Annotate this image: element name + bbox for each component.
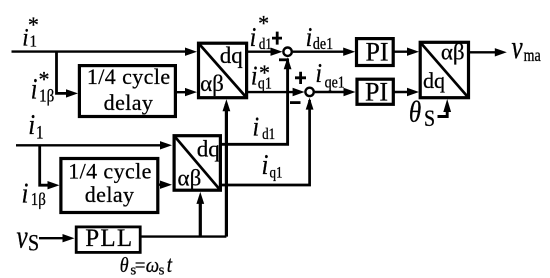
plus sign node 2 — [295, 72, 306, 84]
arrowhead theta into lower dq box bottom — [196, 192, 204, 204]
minus sign node 2 — [290, 101, 301, 104]
wire ide1 node1 to PI1 — [293, 51, 347, 53]
block delay1 (1/4 cycle delay) — [79, 66, 175, 117]
svg-text:dq: dq — [220, 43, 244, 68]
wire delay1 output — [175, 91, 188, 93]
svg-text:d1: d1 — [262, 126, 275, 143]
svg-text:i: i — [315, 57, 322, 88]
arrowhead into upper dq box ab input — [185, 88, 197, 96]
label ide1 — [306, 21, 334, 53]
label i1* — [22, 12, 39, 51]
label id1* — [250, 10, 272, 53]
arrowhead riser1 into node1 — [284, 57, 292, 69]
arrowhead into PI2 — [344, 88, 356, 96]
svg-text:PI: PI — [365, 38, 388, 67]
arrowhead theta into upper dq box bottom — [223, 99, 231, 111]
wire branch i1* down to delay1 — [57, 52, 69, 94]
svg-text:i: i — [28, 108, 35, 140]
svg-text:*: * — [258, 10, 269, 35]
minus sign node 1 — [279, 58, 289, 61]
arrowhead into PI1 — [343, 48, 355, 56]
svg-text:delay: delay — [85, 182, 135, 207]
svg-text:i: i — [251, 60, 258, 91]
label i1b lower — [22, 177, 46, 209]
arrowhead into summing node 2 — [293, 88, 305, 96]
svg-text:1: 1 — [36, 122, 43, 143]
arrowhead into inverse transform top — [407, 48, 419, 56]
block transform U3 dq/ab lower — [174, 136, 220, 191]
wire PI2 to inverse transform — [393, 91, 410, 93]
svg-text:q1: q1 — [270, 164, 283, 181]
plus sign node 1 — [272, 32, 282, 45]
svg-text:*: * — [28, 12, 39, 37]
svg-text:θ: θ — [409, 94, 421, 128]
arrowhead into summing node 1 — [271, 48, 283, 56]
label i1b* — [31, 66, 54, 106]
label iq1* — [251, 60, 272, 93]
wire iqe1 node2 to PI2 — [315, 91, 347, 93]
svg-text:ω: ω — [146, 254, 159, 277]
summing node 1 — [283, 48, 291, 56]
svg-text:1/4 cycle: 1/4 cycle — [87, 64, 171, 89]
svg-text:1β: 1β — [31, 189, 46, 210]
block PLL — [76, 225, 140, 252]
block delay2 (1/4 cycle delay) — [61, 159, 158, 213]
svg-text:dq: dq — [197, 137, 221, 162]
label theta_s = omega_s t equation — [120, 251, 173, 278]
svg-text:i: i — [253, 111, 260, 142]
wire id1 feedback to node1 — [220, 60, 287, 144]
svg-text:αβ: αβ — [178, 165, 202, 190]
wire theta riser to upper dq box — [225, 104, 228, 237]
block PI2 — [357, 78, 393, 107]
wire iq1 feedback to node2 — [220, 100, 309, 185]
svg-text:*: * — [39, 66, 50, 91]
arrowhead into upper dq box top input — [185, 48, 197, 56]
wire i1* top horizontal — [12, 50, 189, 52]
wire iq1* to summing node 2 — [247, 91, 299, 93]
wire PLL output horizontal — [140, 235, 226, 237]
label iqe1 — [315, 57, 344, 91]
wire PI1 to inverse transform — [393, 51, 410, 53]
svg-text:θ: θ — [120, 253, 129, 277]
wire vS to PLL — [39, 237, 64, 239]
arrowhead thetaS into inverse transform bottom — [443, 99, 451, 112]
arrowhead into delay2 — [48, 181, 60, 189]
svg-text:S: S — [424, 106, 435, 132]
svg-text:delay: delay — [104, 90, 154, 115]
svg-text:i: i — [22, 177, 29, 209]
svg-text:*: * — [259, 60, 270, 85]
block transform U1 dq/ab upper — [199, 43, 247, 97]
label vma — [512, 30, 541, 66]
wire theta riser to lower dq box — [199, 197, 202, 237]
wire branch i1 down to delay2 — [40, 145, 49, 185]
arrowhead riser2 into node2 — [306, 98, 314, 110]
svg-text:i: i — [250, 21, 257, 52]
svg-text:v: v — [512, 30, 523, 66]
wire id1* to summing node 1 — [247, 51, 277, 53]
block transform U2 ab/dq inverse — [420, 40, 468, 98]
wire thetaS L-connector — [438, 110, 448, 117]
svg-text:d1: d1 — [259, 36, 272, 53]
svg-text:PI: PI — [365, 78, 388, 107]
label i1 — [28, 108, 43, 142]
label thetaS — [409, 94, 435, 131]
arrowhead into inverse transform bottom — [407, 88, 419, 96]
arrowhead into PLL — [63, 234, 75, 242]
svg-text:1/4 cycle: 1/4 cycle — [68, 159, 152, 184]
svg-text:v: v — [17, 219, 28, 255]
svg-text:i: i — [31, 72, 38, 105]
svg-text:S: S — [28, 230, 39, 256]
label vS — [17, 219, 40, 256]
svg-text:de1: de1 — [313, 35, 333, 53]
svg-text:dq: dq — [423, 68, 445, 93]
svg-text:PLL: PLL — [85, 225, 133, 252]
svg-text:s: s — [159, 263, 165, 278]
block PI1 — [357, 38, 394, 67]
svg-text:αβ: αβ — [441, 40, 465, 65]
summing node 2 — [305, 88, 313, 96]
arrowhead into lower dq box top input — [160, 141, 172, 149]
label id1 lower — [253, 111, 276, 143]
wire vma output — [469, 51, 497, 53]
svg-text:=: = — [135, 255, 146, 276]
arrowhead vma — [495, 48, 507, 56]
wire i1 horizontal — [16, 144, 164, 146]
svg-text:αβ: αβ — [200, 71, 224, 96]
label iq1 lower — [262, 148, 283, 181]
svg-text:qe1: qe1 — [325, 73, 345, 91]
svg-text:i: i — [306, 21, 313, 52]
svg-text:ma: ma — [524, 47, 541, 66]
arrowhead into lower dq box ab input — [160, 181, 172, 189]
arrowhead into delay1 — [66, 89, 78, 97]
svg-text:i: i — [262, 148, 269, 180]
wire delay2 output — [158, 183, 164, 185]
